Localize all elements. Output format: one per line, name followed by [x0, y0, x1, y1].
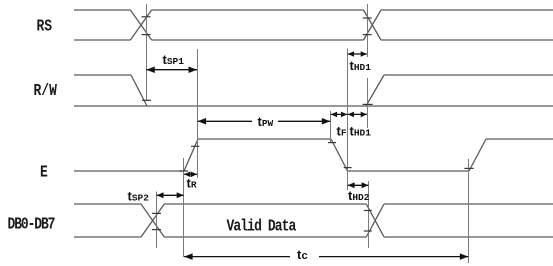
- tick E rise 2 corner: [464, 167, 473, 169]
- arrow tc: [184, 253, 468, 260]
- svg-text:E: E: [40, 162, 48, 182]
- cursor V5 at E fall top: [330, 111, 332, 143]
- tick RS X1 upper: [142, 16, 151, 18]
- wire DB bottom rail: [74, 236, 553, 238]
- E rising edge 2: [469, 139, 486, 171]
- cursor V2 at E rise top: [197, 49, 199, 178]
- tick RS X2 lower: [363, 34, 372, 36]
- tick E rise 1 slope: [191, 145, 199, 147]
- R/W rising edge: [366, 75, 384, 106]
- E falling edge: [331, 139, 348, 171]
- tick RS X1 lower: [142, 34, 151, 36]
- cursor V1 at RS crossover 1: [146, 4, 148, 101]
- label tc: [290, 248, 319, 262]
- wire R/W high rail left: [74, 74, 131, 76]
- svg-text:RS: RS: [37, 16, 53, 36]
- tick R/W fall: [142, 99, 151, 101]
- svg-text:Valid Data: Valid Data: [227, 216, 297, 236]
- wire E high rail right: [486, 138, 553, 140]
- cursor V11 at E rise 2: [468, 159, 470, 263]
- svg-text:R/W: R/W: [34, 80, 58, 100]
- cursor V10 at DB crossover 2: [368, 181, 370, 248]
- label tPW: [252, 113, 278, 128]
- tick RS X2 upper: [363, 17, 372, 19]
- RS crossover X2: [364, 10, 382, 40]
- arrow tHD1 bottom: [348, 112, 367, 118]
- wire E low rail left: [74, 170, 184, 172]
- wire R/W high rail right: [384, 74, 553, 76]
- DB crossover X2: [366, 204, 384, 237]
- cursor V6 at E fall bottom: [347, 49, 349, 191]
- cursor V4 at DB crossover 1: [156, 192, 158, 249]
- R/W falling edge: [131, 75, 147, 106]
- wire RS bottom rail: [74, 39, 553, 41]
- tick E fall upper: [328, 142, 336, 144]
- RS crossover X1: [130, 10, 151, 40]
- arrow tPW: [198, 118, 331, 125]
- tick DB X1 upper: [152, 212, 161, 214]
- DB crossover X1: [141, 204, 164, 237]
- tick DB X2 lower: [364, 230, 372, 232]
- tick R/W rise: [363, 103, 373, 105]
- arrow tSP1: [146, 66, 197, 73]
- wire E high rail: [198, 138, 331, 140]
- cursor V9 at RS crossover 2: [367, 4, 369, 128]
- wire DB top rail: [74, 203, 553, 205]
- svg-text:DB0-DB7: DB0-DB7: [8, 214, 56, 234]
- arrow tHD1 top: [348, 51, 367, 57]
- arrow tSP2: [157, 192, 184, 198]
- arrow tHD2: [348, 182, 369, 188]
- wire E low rail middle: [348, 170, 470, 172]
- tick E rise 1 corner: [179, 170, 188, 172]
- arrow tF: [331, 112, 347, 118]
- tick DB X1 lower: [152, 229, 161, 231]
- wire R/W low rail: [74, 105, 553, 107]
- arrow tR: [184, 172, 197, 178]
- tick E fall lower: [344, 167, 352, 169]
- tick DB X2 upper: [364, 210, 372, 212]
- cursor V3 at E rise bottom: [183, 158, 185, 257]
- wire RS top rail: [74, 9, 553, 11]
- E rising edge 1: [184, 139, 198, 171]
